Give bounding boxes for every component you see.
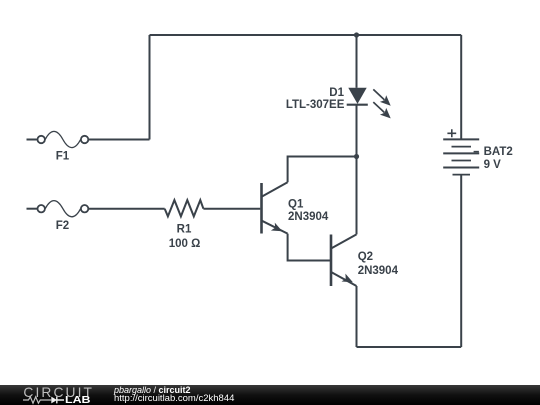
LED emission arrow 2 xyxy=(373,102,384,113)
battery label dash xyxy=(474,151,479,153)
wire battery top xyxy=(460,35,462,139)
wire Q1 emitter to Q2 base xyxy=(288,234,330,261)
battery BAT2 plates xyxy=(443,139,479,174)
svg-text:F1: F1 xyxy=(56,151,70,163)
wire F1 to corner xyxy=(89,139,150,141)
wire R1 to Q1 base xyxy=(203,208,260,210)
wire LED to node xyxy=(356,105,358,157)
LED emission arrow 1 xyxy=(373,89,384,100)
wire Q1 collector xyxy=(288,157,357,183)
svg-text:9 V: 9 V xyxy=(484,159,502,171)
wire battery bottom xyxy=(460,175,462,347)
transistor Q2 xyxy=(331,234,357,286)
svg-text:R1: R1 xyxy=(177,224,192,236)
wire top rail xyxy=(150,34,462,36)
footer title xyxy=(114,386,191,395)
svg-text:Q1: Q1 xyxy=(288,198,304,210)
LED D1 cathode bar xyxy=(347,104,368,106)
svg-text:LTL-307EE: LTL-307EE xyxy=(286,99,345,111)
svg-text:2N3904: 2N3904 xyxy=(358,265,399,277)
svg-text:F2: F2 xyxy=(56,220,69,232)
footer url xyxy=(114,395,234,404)
CircuitLab logo text xyxy=(23,386,94,400)
Q1 emitter arrowhead xyxy=(271,223,282,232)
footer bar xyxy=(0,385,540,405)
svg-text:100 Ω: 100 Ω xyxy=(169,238,201,250)
wire rail node to LED xyxy=(356,35,358,88)
node dot top xyxy=(354,32,359,37)
wire F2 to R1 xyxy=(89,208,165,210)
fuse F1 xyxy=(27,131,89,147)
resistor R1 xyxy=(165,200,204,216)
wire node to Q2 collector xyxy=(356,157,358,235)
wire left vertical xyxy=(149,35,151,140)
svg-text:D1: D1 xyxy=(329,87,344,99)
svg-text:2N3904: 2N3904 xyxy=(288,211,329,223)
wire bottom rail xyxy=(357,346,462,348)
LED D1 triangle xyxy=(348,88,366,104)
CircuitLab logo squiggle xyxy=(22,395,66,405)
wire Q2 emitter down xyxy=(356,286,358,347)
svg-text:Q2: Q2 xyxy=(358,251,373,263)
fuse F2 xyxy=(27,201,89,217)
Q2 emitter arrowhead xyxy=(342,274,353,283)
transistor Q1 xyxy=(262,182,288,233)
battery plus sign xyxy=(447,129,456,137)
svg-text:BAT2: BAT2 xyxy=(484,146,513,158)
node dot collector junction xyxy=(354,154,359,159)
